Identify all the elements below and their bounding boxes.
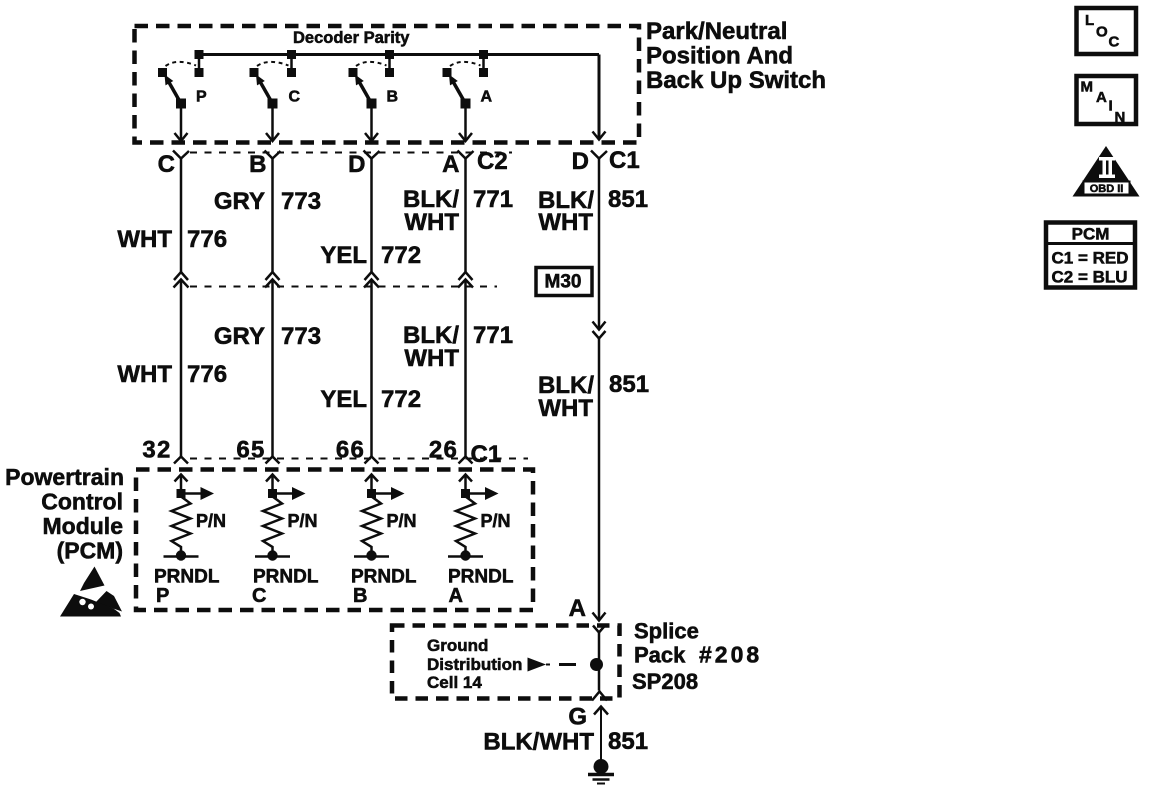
value label: BLK/WHT 771 (segment 1): [403, 186, 513, 236]
svg-text:SP208: SP208: [632, 669, 698, 694]
pin B : female connector half: [265, 151, 281, 159]
reference arrow to splice node: [528, 658, 577, 672]
svg-text:772: 772: [381, 386, 421, 413]
svg-text:C: C: [1109, 34, 1120, 51]
label: switch position P: [196, 89, 207, 106]
wire: BLK/WHT 851 from switch to inline connector: [593, 159, 606, 330]
label: splice pin A: [569, 595, 586, 622]
ground G103 symbol: [588, 759, 614, 784]
LOC reference icon: [1077, 8, 1137, 54]
svg-text:N: N: [1115, 109, 1126, 126]
label: switch position A: [481, 89, 493, 106]
signal arrow to logic (PRNDL C): [273, 487, 306, 500]
svg-text:P/N: P/N: [196, 511, 226, 531]
svg-text:Powertrain: Powertrain: [5, 464, 124, 490]
switch contact B : bus junction: [385, 50, 394, 59]
svg-text:GRY: GRY: [214, 323, 265, 350]
wire: WHT 776 segment 1: [174, 159, 188, 281]
PCM input arrow (pin 32): [175, 475, 188, 494]
wire: switch A output drop with arrow: [459, 104, 472, 142]
svg-text:WHT: WHT: [538, 209, 593, 236]
svg-text:Splice: Splice: [634, 619, 699, 644]
pin D : female connector half: [364, 151, 380, 159]
switch A right fixed contact: [479, 68, 488, 77]
value label: BLK/WHT 851 (segment 1): [538, 186, 648, 236]
wire: bus drop to fixed contact B: [388, 55, 391, 71]
inline connector male half on wire GRY 773: [265, 280, 280, 288]
switch P travel arc: [166, 62, 197, 66]
switch B travel arc: [356, 62, 387, 66]
node: splice SP208 junction dot: [590, 658, 603, 671]
switch contact A : bus junction: [479, 50, 488, 59]
label: pin D: [348, 151, 365, 178]
svg-text:M: M: [1081, 79, 1094, 96]
svg-text:Back Up Switch: Back Up Switch: [646, 67, 826, 94]
wire: parity bus inside switch box: [199, 53, 599, 56]
svg-text:Module: Module: [43, 513, 124, 539]
svg-text:851: 851: [608, 186, 648, 213]
value label: P/N: [288, 511, 318, 531]
value label: YEL 772 (segment 2): [320, 386, 421, 413]
svg-text:Park/Neutral: Park/Neutral: [646, 18, 787, 45]
svg-text:A: A: [1096, 89, 1107, 106]
svg-text:Position And: Position And: [646, 43, 793, 70]
label: Park/Neutral Position And Back Up Switch: [646, 18, 826, 94]
wire: bus drop to fixed contact C: [290, 55, 293, 71]
value label: BLK/WHT 771 (segment 2): [403, 322, 513, 372]
switch A left fixed contact: [443, 68, 452, 77]
svg-text:L: L: [1085, 12, 1094, 29]
svg-text:C2: C2: [477, 148, 508, 175]
svg-text:M30: M30: [545, 272, 582, 293]
svg-text:Decoder Parity: Decoder Parity: [293, 29, 410, 47]
svg-text:P: P: [196, 89, 207, 106]
internal rail with node dot (PRNDL P): [164, 550, 199, 560]
svg-text:OBD II: OBD II: [1090, 183, 1124, 195]
value label: P/N: [387, 511, 417, 531]
label: PRNDL C: [252, 567, 319, 608]
connector dashed line (inline connector): [190, 286, 497, 288]
svg-text:851: 851: [609, 371, 649, 398]
value label: GRY 773 (segment 2): [214, 323, 321, 350]
switch B movable lever: [355, 75, 372, 104]
switch B left fixed contact: [349, 68, 358, 77]
svg-text:I: I: [1109, 98, 1113, 115]
ESD sensitive device symbol: [60, 567, 122, 617]
svg-text:A: A: [442, 151, 459, 178]
svg-text:C2 = BLU: C2 = BLU: [1052, 268, 1128, 287]
resistor P/N pull-up (PRNDL A): [456, 494, 475, 554]
svg-text:D: D: [572, 148, 589, 175]
signal arrow to logic (PRNDL P): [181, 487, 214, 500]
inline connector male half on wire WHT 776: [174, 280, 189, 288]
label: Ground Distribution Cell 14: [427, 636, 522, 692]
svg-text:(PCM): (PCM): [57, 538, 123, 564]
svg-text:B: B: [249, 151, 266, 178]
wire: bus right end drop (pin D) with arrow: [593, 55, 606, 140]
inline connector male half on wire BLK/WHT 771: [458, 280, 473, 288]
pin A : female connector half: [458, 151, 474, 159]
resistor P/N pull-up (PRNDL B): [362, 494, 381, 554]
label: Splice Pack #208 SP208: [632, 619, 762, 695]
svg-text:B: B: [353, 585, 367, 607]
svg-text:32: 32: [142, 437, 171, 464]
wire: BLK/WHT 851 to ground with up arrow: [594, 707, 608, 760]
label: pin A: [442, 151, 459, 178]
label: switch position B: [387, 89, 399, 106]
label: pin C: [158, 151, 175, 178]
splice pack bottom connector chevron: [592, 692, 607, 701]
connector dashed line (PCM connector C1): [190, 458, 528, 460]
label: PCM pin 32: [142, 437, 171, 464]
signal arrow to logic (PRNDL A): [466, 487, 499, 500]
wire: GRY 773 segment 2: [266, 280, 280, 464]
value label: YEL 772 (segment 1): [320, 242, 421, 269]
svg-text:771: 771: [473, 322, 513, 349]
switch contact P : bus junction: [195, 50, 204, 59]
svg-text:WHT: WHT: [404, 345, 459, 372]
value label: GRY 773 (segment 1): [214, 188, 321, 215]
label: Powertrain Control Module (PCM): [5, 464, 124, 564]
svg-text:YEL: YEL: [320, 242, 367, 269]
svg-text:A: A: [569, 595, 586, 622]
node: PRNDL A sense junction: [461, 489, 470, 498]
svg-text:771: 771: [473, 186, 513, 213]
label: PRNDL P: [154, 567, 220, 608]
svg-text:65: 65: [236, 437, 265, 464]
switch P right fixed contact: [195, 68, 204, 77]
svg-text:66: 66: [336, 437, 365, 464]
switch C travel arc: [257, 62, 289, 66]
value label: P/N: [481, 511, 511, 531]
wire: switch P output drop with arrow: [175, 104, 188, 142]
M30 reference box: [536, 268, 592, 296]
svg-text:773: 773: [281, 323, 321, 350]
switch P pivot contact: [176, 99, 186, 109]
svg-text:C: C: [158, 151, 175, 178]
MAIN reference icon: [1077, 76, 1137, 126]
svg-text:Ground: Ground: [427, 636, 488, 655]
svg-text:Distribution: Distribution: [427, 655, 522, 674]
Powertrain Control Module enclosure box: [136, 470, 533, 611]
pin D (C1) : female connector half: [591, 151, 607, 159]
label: pin G: [568, 704, 587, 731]
svg-text:WHT: WHT: [404, 209, 459, 236]
pin C : female connector half: [173, 151, 189, 159]
switch P left fixed contact: [158, 68, 167, 77]
OBD II triangle icon: [1073, 146, 1140, 197]
svg-text:#208: #208: [699, 642, 762, 668]
svg-text:851: 851: [608, 728, 648, 755]
svg-text:WHT: WHT: [117, 226, 172, 253]
label: pin D: [572, 148, 589, 175]
svg-text:P/N: P/N: [387, 511, 417, 531]
Park/Neutral Position and Back Up Switch enclosure box: [135, 26, 640, 143]
svg-text:Pack: Pack: [634, 643, 686, 668]
label: connector C2: [477, 148, 508, 175]
wire: BLK/WHT 771 segment 1: [459, 159, 473, 281]
wire: BLK/WHT 771 segment 2: [459, 280, 473, 464]
switch B pivot contact: [367, 99, 377, 109]
switch C left fixed contact: [250, 68, 259, 77]
label: pin B: [249, 151, 266, 178]
label: connector C1: [609, 147, 640, 174]
label: switch position C: [289, 89, 301, 106]
svg-text:G: G: [568, 704, 587, 731]
svg-text:YEL: YEL: [320, 386, 367, 413]
PCM input arrow (pin 66): [365, 475, 378, 494]
svg-text:773: 773: [281, 188, 321, 215]
label: PCM pin 65: [236, 437, 265, 464]
label: PRNDL A: [448, 567, 514, 608]
svg-text:WHT: WHT: [117, 361, 172, 388]
value label: WHT 776 (segment 2): [117, 361, 227, 388]
svg-text:A: A: [449, 585, 463, 607]
PCM input arrow (pin 26): [459, 475, 472, 494]
svg-text:C1 = RED: C1 = RED: [1052, 249, 1129, 268]
svg-text:P/N: P/N: [481, 511, 511, 531]
PCM input arrow (pin 65): [266, 475, 279, 494]
svg-text:WHT: WHT: [538, 395, 593, 422]
switch contact C : bus junction: [287, 50, 296, 59]
switch A pivot contact: [461, 99, 471, 109]
label: Decoder Parity: [293, 29, 410, 47]
inline connector male half on wire YEL 772: [364, 280, 379, 288]
switch B right fixed contact: [385, 68, 394, 77]
switch C right fixed contact: [287, 68, 296, 77]
wire: WHT 776 segment 2: [174, 280, 188, 464]
svg-text:776: 776: [187, 361, 227, 388]
connector dashed line (switch connector): [190, 152, 512, 154]
svg-text:O: O: [1096, 24, 1108, 41]
value label: WHT 776 (segment 1): [117, 226, 227, 253]
value label: P/N: [196, 511, 226, 531]
switch C pivot contact: [268, 99, 278, 109]
svg-text:BLK/WHT: BLK/WHT: [483, 729, 594, 756]
switch A travel arc: [450, 62, 481, 66]
wire: YEL 772 segment 1: [365, 159, 379, 281]
label: PRNDL B: [351, 567, 417, 608]
resistor P/N pull-up (PRNDL P): [172, 494, 191, 554]
svg-text:776: 776: [187, 226, 227, 253]
Ground Distribution reference box: [392, 626, 620, 699]
node: PRNDL B sense junction: [367, 489, 376, 498]
wire: GRY 773 segment 1: [266, 159, 280, 281]
node: PRNDL C sense junction: [268, 489, 277, 498]
internal rail with node dot (PRNDL A): [448, 550, 483, 560]
svg-text:C1: C1: [471, 441, 502, 468]
wire: splice pack internal: [598, 633, 601, 691]
value label: BLK/WHT 851 (segment 2): [538, 371, 649, 422]
internal rail with node dot (PRNDL B): [354, 550, 389, 560]
inline connector female half on wire 851: [593, 331, 606, 339]
switch A movable lever: [449, 75, 466, 104]
wire: switch B output drop with arrow: [365, 104, 378, 142]
svg-text:A: A: [481, 89, 493, 106]
value label: BLK/WHT 851 (ground lead): [483, 728, 648, 756]
wire: bus drop to fixed contact A: [482, 55, 485, 71]
label: PCM pin 66: [336, 437, 365, 464]
node: PRNDL P sense junction: [177, 489, 186, 498]
svg-text:D: D: [348, 151, 365, 178]
label: PCM connector C1: [471, 441, 502, 468]
resistor P/N pull-up (PRNDL C): [263, 494, 282, 554]
svg-text:772: 772: [381, 242, 421, 269]
svg-text:26: 26: [429, 437, 458, 464]
svg-text:GRY: GRY: [214, 188, 265, 215]
wire: YEL 772 segment 2: [365, 280, 379, 464]
svg-text:C: C: [252, 585, 266, 607]
wire: bus drop to fixed contact P: [198, 55, 201, 71]
switch C movable lever: [256, 75, 273, 104]
svg-text:P: P: [156, 585, 169, 607]
wire: BLK/WHT 851 from inline connector to splice pack: [593, 339, 606, 621]
internal rail with node dot (PRNDL C): [255, 550, 290, 560]
svg-text:Control: Control: [41, 489, 123, 515]
switch P movable lever: [165, 75, 182, 104]
svg-text:PCM: PCM: [1072, 225, 1110, 244]
svg-text:Cell 14: Cell 14: [427, 673, 482, 692]
svg-text:C: C: [289, 89, 301, 106]
signal arrow to logic (PRNDL B): [372, 487, 405, 500]
splice pack female connector half: [593, 626, 605, 633]
svg-text:B: B: [387, 89, 399, 106]
label: PCM pin 26: [429, 437, 458, 464]
svg-text:P/N: P/N: [288, 511, 318, 531]
wire: switch C output drop with arrow: [266, 104, 279, 142]
svg-text:C1: C1: [609, 147, 640, 174]
PCM connector colour legend: [1046, 223, 1135, 288]
